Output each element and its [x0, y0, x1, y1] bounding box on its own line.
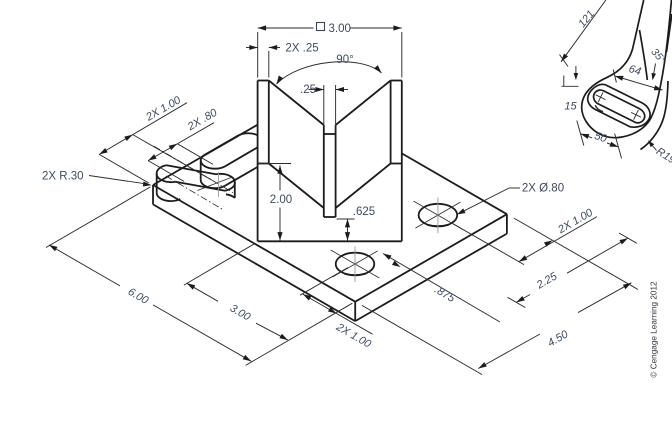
svg-text:.25: .25	[300, 84, 316, 96]
svg-text:2.00: 2.00	[270, 194, 292, 206]
svg-text:.625: .625	[353, 206, 375, 218]
svg-text:© Cengage Learning 2012: © Cengage Learning 2012	[650, 281, 659, 378]
svg-text:90°: 90°	[336, 54, 353, 66]
svg-text:2X R.30: 2X R.30	[42, 171, 84, 183]
svg-text:3.00: 3.00	[329, 23, 351, 35]
svg-text:2X .25: 2X .25	[285, 43, 318, 55]
svg-text:15: 15	[564, 101, 577, 113]
svg-text:2X Ø.80: 2X Ø.80	[522, 183, 564, 195]
